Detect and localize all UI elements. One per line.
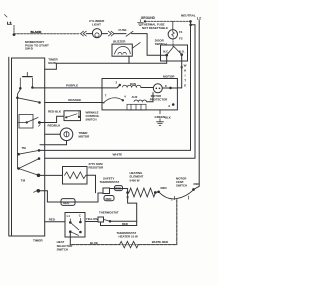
svg-text:RED: RED bbox=[106, 197, 112, 201]
svg-text:W: W bbox=[184, 64, 187, 68]
svg-text:E: E bbox=[184, 84, 186, 88]
connector RED tag B2 bbox=[104, 196, 114, 201]
wire buzzer drop and run to NC bbox=[129, 55, 167, 63]
wire RED-BLK timer to wrinkle switch bbox=[39, 116, 64, 122]
switch motor internal centrifugal blade bbox=[104, 98, 123, 103]
svg-text:BLK: BLK bbox=[165, 115, 171, 119]
thermostat safety contact box bbox=[103, 188, 110, 194]
resistor thermostat heater bbox=[120, 241, 139, 247]
wire RED from timer contact F bbox=[38, 191, 103, 202]
svg-text:TIMER: TIMER bbox=[33, 238, 43, 242]
wire RED timer to heat selector bbox=[45, 221, 65, 223]
svg-text:HEATER 10 W: HEATER 10 W bbox=[119, 235, 138, 239]
svg-text:THERMOSTAT: THERMOSTAT bbox=[117, 231, 137, 235]
svg-text:5400 W: 5400 W bbox=[130, 178, 140, 182]
label THERMAL FUSE NOT RESETTABLE bbox=[142, 23, 168, 31]
label 2775 OHM RESISTOR bbox=[89, 162, 105, 170]
wire timer motor left bbox=[45, 133, 61, 135]
wire fuse to door switch NC bbox=[132, 34, 167, 56]
switch timer contact C with TM label bbox=[17, 146, 40, 156]
switch blade on buzzer bbox=[132, 43, 140, 49]
svg-text:T: T bbox=[184, 79, 186, 83]
wire PURPLE timer to motor bbox=[45, 87, 102, 89]
fuse thermal fuse circle bbox=[168, 30, 177, 39]
svg-text:FUSE: FUSE bbox=[119, 28, 127, 32]
wire L1 drop to junction bbox=[13, 26, 15, 35]
wire aux to protector bbox=[147, 93, 153, 102]
svg-text:TM: TM bbox=[21, 178, 26, 182]
ground green stub bbox=[159, 110, 161, 122]
label WHITE vertical bbox=[184, 64, 187, 88]
svg-text:SWITCH: SWITCH bbox=[86, 118, 97, 122]
svg-text:BUZZER: BUZZER bbox=[113, 40, 126, 44]
svg-text:PROTECTOR: PROTECTOR bbox=[150, 98, 168, 102]
svg-text:HEATING: HEATING bbox=[130, 171, 144, 175]
terminal block on motor box bottom bbox=[127, 104, 146, 110]
wire out of lamp bbox=[102, 33, 108, 35]
svg-text:AUX: AUX bbox=[132, 95, 138, 99]
svg-text:MOTOR: MOTOR bbox=[163, 74, 175, 78]
svg-text:YELLOW: YELLOW bbox=[86, 217, 99, 221]
node dot ground end bbox=[144, 20, 146, 22]
svg-text:LIGHT: LIGHT bbox=[92, 23, 101, 27]
svg-text:RED: RED bbox=[49, 218, 55, 222]
ground symbol bbox=[157, 122, 164, 126]
wire timer motor bottom return bbox=[40, 141, 67, 145]
svg-text:MAIN: MAIN bbox=[48, 61, 56, 65]
label DOOR SWITCH bbox=[155, 38, 167, 46]
wire element to cent switch bbox=[155, 191, 158, 194]
svg-text:H: H bbox=[184, 69, 186, 73]
svg-text:SAFETY: SAFETY bbox=[103, 176, 114, 180]
svg-text:THERMOSTAT: THERMOSTAT bbox=[100, 180, 120, 184]
wire lamp to fuse bbox=[114, 33, 126, 35]
switch timer contact D/E bbox=[17, 157, 40, 182]
connector chevrons right of cylinder light bbox=[108, 31, 114, 36]
svg-text:SWITCH: SWITCH bbox=[57, 247, 68, 251]
svg-text:RED-BLK: RED-BLK bbox=[48, 109, 62, 113]
svg-text:L2: L2 bbox=[197, 17, 201, 21]
node NO contact dot bbox=[180, 53, 183, 56]
switch door switch box bbox=[161, 45, 188, 61]
svg-text:GREEN: GREEN bbox=[155, 115, 166, 119]
switch timer contact F bbox=[34, 189, 41, 193]
node L1 bbox=[5, 15, 13, 26]
node junction dot L1/black bbox=[13, 33, 16, 36]
svg-text:N.O.: N.O. bbox=[179, 50, 185, 54]
buzzer BZ coil box bbox=[112, 44, 132, 56]
connector RED tag B1 bbox=[61, 199, 75, 206]
svg-text:RED: RED bbox=[194, 182, 200, 186]
breaker motor protector circle bbox=[153, 84, 162, 93]
wire neutral dashed bus bbox=[145, 20, 191, 22]
label SAFETY THERMOSTAT bbox=[100, 176, 120, 184]
inductor aux winding bbox=[134, 100, 147, 102]
label MOMENTARY PUSH TO START bbox=[25, 40, 49, 50]
svg-text:TM: TM bbox=[22, 146, 27, 150]
switch timer wrinkle-release contact box bbox=[18, 115, 41, 129]
wire WHITE return long bbox=[39, 21, 191, 150]
switch cycling thermostat blade bbox=[104, 219, 111, 221]
node timer red-blk dot bbox=[38, 121, 41, 124]
arrow on element tap bbox=[126, 197, 129, 200]
label HEAT SELECTOR SWITCH bbox=[57, 240, 74, 251]
svg-text:BLACK: BLACK bbox=[31, 30, 43, 34]
wire into lamp bbox=[86, 33, 92, 35]
node motor pin5 dot bbox=[172, 103, 175, 106]
motor M1 box bbox=[102, 79, 177, 110]
motor TM1 timer motor bbox=[60, 128, 73, 141]
svg-text:PURPLE: PURPLE bbox=[66, 83, 78, 87]
thermostat cycling contact block bbox=[98, 217, 104, 222]
svg-text:NEUTRAL: NEUTRAL bbox=[181, 14, 196, 18]
label CYLINDER LIGHT bbox=[89, 19, 105, 27]
wire L2 feed bbox=[194, 21, 200, 190]
node dot neutral lower bbox=[189, 24, 192, 27]
svg-text:GROUND: GROUND bbox=[141, 16, 156, 20]
node NC contact dot bbox=[165, 54, 168, 57]
wire motor C stub bbox=[177, 87, 181, 89]
svg-text:SWITCH: SWITCH bbox=[176, 184, 187, 188]
svg-text:WHITE-RED: WHITE-RED bbox=[152, 240, 168, 244]
wire purple entry inside bbox=[102, 85, 120, 88]
label MOTOR CENT. SWITCH bbox=[176, 177, 187, 188]
svg-text:BLUE: BLUE bbox=[90, 241, 98, 245]
node aux dot bbox=[122, 99, 124, 101]
node cycling thermostat dot bbox=[109, 220, 112, 223]
fuse FUSE bbox=[119, 28, 134, 36]
svg-text:RED/BLK: RED/BLK bbox=[48, 124, 62, 128]
wire timer contact to buzzer line bbox=[45, 63, 129, 69]
svg-text:RESISTOR: RESISTOR bbox=[89, 165, 105, 169]
resistor heating element bbox=[129, 188, 156, 197]
svg-text:NOT RESETTABLE: NOT RESETTABLE bbox=[142, 26, 168, 30]
node motor C dot bbox=[169, 87, 172, 90]
resistor 2775 ohm box bbox=[63, 167, 88, 185]
switch heat selector box bbox=[65, 213, 85, 238]
svg-text:RED: RED bbox=[63, 201, 69, 205]
svg-text:L1: L1 bbox=[67, 214, 71, 218]
svg-text:ELEMENT: ELEMENT bbox=[130, 175, 144, 179]
wire BLACK to cylinder light bbox=[14, 33, 79, 35]
svg-text:RED: RED bbox=[161, 186, 167, 190]
wire ORANGE timer to motor bbox=[45, 102, 102, 104]
wire orange entry inside bbox=[102, 102, 104, 104]
svg-text:F1: F1 bbox=[179, 30, 183, 34]
wire protector to C bbox=[162, 87, 177, 89]
svg-text:L1: L1 bbox=[7, 21, 12, 26]
connector chevrons left of cylinder light bbox=[81, 31, 87, 36]
node dot neutral top bbox=[189, 20, 192, 23]
svg-text:N.C.: N.C. bbox=[163, 50, 169, 54]
wire resistor to safety thermostat bbox=[87, 175, 96, 193]
wire YELLOW heat selector to thermostat bbox=[85, 221, 98, 223]
wire cycling thermostat out bbox=[110, 220, 137, 222]
lamp cylinder light bbox=[92, 29, 101, 38]
svg-text:SW-D: SW-D bbox=[25, 47, 34, 51]
node element right dot bbox=[154, 191, 157, 194]
wire cent switch down to thermostat heater bbox=[70, 200, 177, 245]
node element left dot bbox=[126, 191, 129, 194]
switch door switch blades bbox=[167, 46, 182, 55]
connector RED tag B3 bbox=[115, 186, 123, 191]
wire safety thermostat out bbox=[110, 189, 128, 193]
svg-text:F2: F2 bbox=[179, 36, 183, 40]
label TIMER MAIN bbox=[48, 58, 58, 66]
svg-text:THERMOSTAT: THERMOSTAT bbox=[99, 211, 119, 215]
label MOTOR PROTECTOR bbox=[150, 94, 168, 102]
node motor run dot bbox=[119, 84, 121, 86]
wire element tap down to cycling thermostat loop bbox=[101, 193, 137, 226]
wire timer L1 bus bbox=[18, 90, 21, 169]
label THERMOSTAT HEATER 10 W bbox=[117, 231, 138, 239]
ground symbol below GROUND label bbox=[137, 20, 143, 26]
svg-text:RED: RED bbox=[115, 187, 121, 191]
switch push-to-start inside timer bbox=[19, 72, 45, 89]
svg-text:ORANGE: ORANGE bbox=[68, 98, 81, 102]
switch motor centrifugal contacts bbox=[157, 188, 195, 201]
wire thermal fuse to neutral bus bbox=[172, 21, 174, 29]
inductor run winding bbox=[123, 85, 141, 87]
wire heat selector bottom drop bbox=[69, 232, 71, 245]
timer T1 box bbox=[9, 57, 45, 236]
wire NO drop to motor C bbox=[181, 55, 183, 88]
label TIMER MOTOR bbox=[79, 131, 91, 139]
arrow on NO drop bbox=[180, 67, 183, 71]
wire timer to resistor bbox=[39, 174, 63, 176]
label WRINKLE CONTROL SWITCH bbox=[86, 111, 100, 122]
wire second return long bbox=[45, 25, 195, 158]
switch timer contact B bbox=[16, 97, 41, 104]
svg-text:THERMAL FUSE: THERMAL FUSE bbox=[142, 23, 165, 27]
svg-text:MOTOR: MOTOR bbox=[79, 134, 91, 138]
wire run to protector bbox=[141, 87, 153, 89]
switch wrinkle control box bbox=[64, 111, 81, 121]
label HEATING ELEMENT 5400 W bbox=[130, 171, 144, 183]
wire actuator dashed from thermal fuse bbox=[172, 39, 174, 46]
svg-text:WHITE: WHITE bbox=[113, 153, 123, 157]
